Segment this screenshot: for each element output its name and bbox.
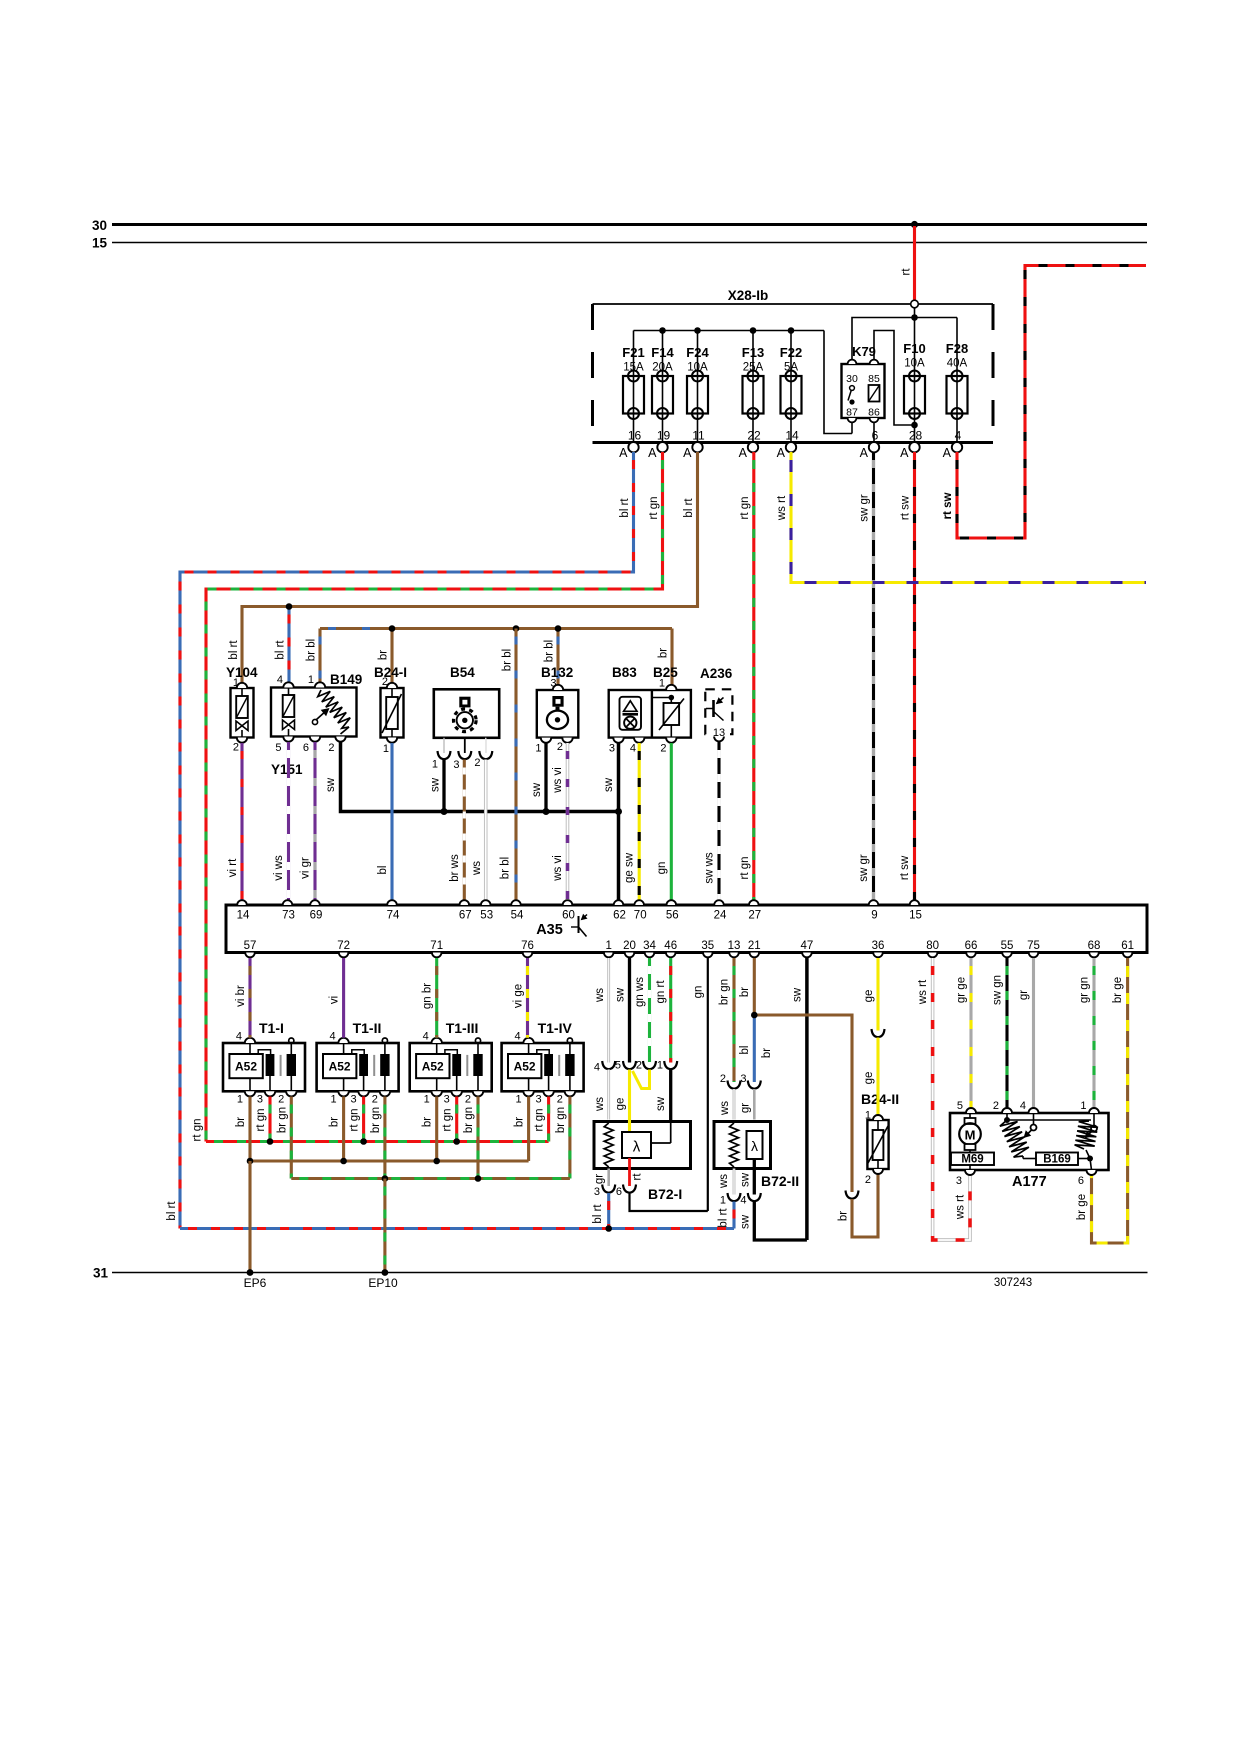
svg-text:30: 30 <box>846 373 858 385</box>
svg-text:5: 5 <box>275 742 281 754</box>
svg-text:3: 3 <box>594 1186 600 1198</box>
svg-text:vi rt: vi rt <box>227 858 239 877</box>
svg-text:4: 4 <box>740 1195 746 1207</box>
svg-text:3: 3 <box>956 1175 962 1187</box>
svg-text:B169: B169 <box>1043 1154 1071 1166</box>
svg-text:6: 6 <box>303 742 309 754</box>
svg-text:36: 36 <box>872 940 885 952</box>
svg-text:3: 3 <box>453 759 459 771</box>
svg-text:80: 80 <box>926 940 939 952</box>
svg-text:24: 24 <box>714 910 727 922</box>
svg-text:A: A <box>860 446 869 460</box>
svg-text:sw: sw <box>655 1096 667 1111</box>
svg-text:1: 1 <box>330 1094 336 1106</box>
svg-text:sw: sw <box>325 777 337 792</box>
svg-text:28: 28 <box>909 429 923 443</box>
svg-text:4: 4 <box>277 674 283 686</box>
svg-text:B25: B25 <box>653 665 678 680</box>
svg-text:EP10: EP10 <box>368 1276 398 1290</box>
svg-text:br bl: br bl <box>306 639 318 661</box>
svg-text:A35: A35 <box>536 922 563 938</box>
svg-text:47: 47 <box>801 940 814 952</box>
svg-text:ws rt: ws rt <box>776 495 788 521</box>
svg-text:1: 1 <box>657 1060 663 1072</box>
svg-text:4: 4 <box>423 1031 429 1043</box>
svg-text:rt gn: rt gn <box>255 1108 267 1131</box>
svg-text:73: 73 <box>282 910 295 922</box>
svg-text:br ws: br ws <box>449 854 461 882</box>
svg-text:55: 55 <box>1001 940 1014 952</box>
svg-text:gn ws: gn ws <box>634 977 646 1007</box>
svg-text:sw: sw <box>740 1172 752 1187</box>
svg-text:11: 11 <box>692 429 705 443</box>
svg-text:1: 1 <box>1080 1100 1086 1112</box>
svg-text:gr: gr <box>1018 990 1030 1000</box>
svg-text:F28: F28 <box>946 341 968 356</box>
svg-text:A236: A236 <box>700 666 733 681</box>
svg-text:1: 1 <box>535 743 541 755</box>
svg-text:ge sw: ge sw <box>624 852 636 883</box>
svg-text:F13: F13 <box>742 345 764 360</box>
svg-text:20: 20 <box>623 940 636 952</box>
svg-text:6: 6 <box>616 1186 622 1198</box>
svg-text:sw: sw <box>603 777 615 792</box>
svg-text:X28-Ib: X28-Ib <box>728 288 769 303</box>
svg-text:K79: K79 <box>852 344 876 359</box>
svg-text:bl rt: bl rt <box>166 1201 178 1221</box>
svg-text:15: 15 <box>92 236 108 251</box>
svg-text:λ: λ <box>633 1139 641 1156</box>
svg-text:sw gr: sw gr <box>859 494 871 522</box>
svg-text:4: 4 <box>1020 1100 1026 1112</box>
svg-text:ws: ws <box>718 1174 730 1189</box>
svg-text:1: 1 <box>659 678 665 690</box>
svg-text:2: 2 <box>636 1060 642 1072</box>
svg-text:sw: sw <box>615 987 627 1002</box>
svg-text:B24-I: B24-I <box>374 665 407 680</box>
svg-text:4: 4 <box>955 429 962 443</box>
svg-text:1: 1 <box>383 743 389 755</box>
svg-text:34: 34 <box>643 940 656 952</box>
svg-text:2: 2 <box>474 757 480 769</box>
svg-text:br bl: br bl <box>500 857 512 879</box>
svg-text:3: 3 <box>535 1094 541 1106</box>
svg-text:B72-I: B72-I <box>648 1186 682 1202</box>
svg-text:2: 2 <box>328 742 334 754</box>
svg-text:67: 67 <box>459 910 472 922</box>
svg-text:br gn: br gn <box>555 1107 567 1133</box>
svg-text:10A: 10A <box>904 358 925 370</box>
svg-text:6: 6 <box>872 429 879 443</box>
svg-text:13: 13 <box>728 940 741 952</box>
svg-text:1: 1 <box>424 1094 430 1106</box>
svg-text:40A: 40A <box>947 358 968 370</box>
svg-text:bl rt: bl rt <box>619 498 631 518</box>
svg-text:1: 1 <box>237 1094 243 1106</box>
svg-text:ws vi: ws vi <box>552 767 564 794</box>
svg-text:2: 2 <box>720 1073 726 1085</box>
svg-text:B54: B54 <box>450 665 475 680</box>
svg-text:rt gn: rt gn <box>349 1108 361 1131</box>
svg-text:br ge: br ge <box>1076 1194 1088 1220</box>
svg-text:rt: rt <box>632 1173 644 1181</box>
svg-text:br: br <box>838 1211 850 1221</box>
svg-text:rt gn: rt gn <box>648 496 660 519</box>
svg-text:bl rt: bl rt <box>592 1204 604 1224</box>
svg-text:F24: F24 <box>686 345 709 360</box>
svg-text:A: A <box>648 446 657 460</box>
svg-text:ge: ge <box>863 1072 875 1085</box>
svg-text:bl rt: bl rt <box>683 498 695 518</box>
svg-text:M69: M69 <box>961 1154 983 1166</box>
svg-text:vi ge: vi ge <box>513 984 525 1008</box>
svg-text:ge: ge <box>863 990 875 1003</box>
svg-text:ws rt: ws rt <box>917 979 929 1005</box>
svg-text:br: br <box>422 1117 434 1127</box>
svg-text:14: 14 <box>237 910 250 922</box>
svg-text:3: 3 <box>350 1094 356 1106</box>
svg-text:70: 70 <box>634 910 647 922</box>
svg-text:4: 4 <box>594 1062 600 1074</box>
svg-text:rt gn: rt gn <box>739 496 751 519</box>
svg-text:307243: 307243 <box>994 1277 1032 1289</box>
svg-text:3: 3 <box>257 1094 263 1106</box>
svg-text:85: 85 <box>868 373 880 385</box>
svg-text:rt gn: rt gn <box>739 856 751 879</box>
svg-text:λ: λ <box>751 1138 758 1154</box>
svg-text:gr: gr <box>594 1174 606 1184</box>
svg-text:F22: F22 <box>780 345 802 360</box>
svg-text:gr: gr <box>740 1103 752 1113</box>
svg-text:A: A <box>739 446 748 460</box>
svg-text:4: 4 <box>514 1031 520 1043</box>
svg-text:1: 1 <box>308 674 314 686</box>
svg-text:2: 2 <box>372 1094 378 1106</box>
svg-text:1: 1 <box>515 1094 521 1106</box>
svg-text:66: 66 <box>965 940 978 952</box>
svg-text:F21: F21 <box>622 345 644 360</box>
svg-text:rt sw: rt sw <box>942 493 954 520</box>
svg-text:B132: B132 <box>541 665 573 680</box>
svg-text:bl rt: bl rt <box>275 640 287 660</box>
svg-text:62: 62 <box>613 910 626 922</box>
svg-text:9: 9 <box>871 910 877 922</box>
svg-text:2: 2 <box>465 1094 471 1106</box>
svg-text:35: 35 <box>701 940 714 952</box>
svg-text:vi gr: vi gr <box>300 857 312 879</box>
svg-text:ws: ws <box>594 988 606 1003</box>
svg-text:A: A <box>777 446 786 460</box>
svg-text:A52: A52 <box>422 1060 444 1074</box>
svg-text:1: 1 <box>432 759 438 771</box>
svg-text:27: 27 <box>748 910 761 922</box>
svg-text:br: br <box>739 987 751 997</box>
svg-text:br ge: br ge <box>1112 977 1124 1003</box>
svg-text:31: 31 <box>93 1266 109 1281</box>
svg-text:2: 2 <box>865 1174 871 1186</box>
svg-text:sw: sw <box>740 1214 752 1229</box>
svg-text:vi: vi <box>329 996 341 1004</box>
svg-text:68: 68 <box>1088 940 1101 952</box>
svg-text:gn br: gn br <box>422 983 434 1009</box>
svg-text:2: 2 <box>557 1094 563 1106</box>
svg-text:gr ge: gr ge <box>956 977 968 1003</box>
svg-text:B83: B83 <box>612 665 637 680</box>
svg-text:F14: F14 <box>651 345 674 360</box>
svg-text:br bl: br bl <box>544 640 556 662</box>
svg-text:4: 4 <box>329 1031 335 1043</box>
svg-text:rt gn: rt gn <box>534 1108 546 1131</box>
svg-text:sw gn: sw gn <box>992 975 1004 1005</box>
svg-text:bl rt: bl rt <box>228 640 240 660</box>
svg-text:A52: A52 <box>235 1060 257 1074</box>
svg-text:76: 76 <box>521 940 534 952</box>
svg-text:gn: gn <box>656 862 668 875</box>
svg-text:vi ws: vi ws <box>273 855 285 881</box>
svg-text:EP6: EP6 <box>244 1276 267 1290</box>
svg-text:15: 15 <box>909 910 922 922</box>
svg-text:gn: gn <box>693 986 705 999</box>
svg-text:bl rt: bl rt <box>718 1208 730 1228</box>
svg-text:B24-II: B24-II <box>861 1091 899 1107</box>
svg-text:ws vi: ws vi <box>552 855 564 882</box>
svg-text:54: 54 <box>511 910 524 922</box>
svg-text:T1-I: T1-I <box>259 1020 284 1036</box>
svg-text:ws: ws <box>719 1101 731 1116</box>
svg-text:sw ws: sw ws <box>704 852 716 884</box>
svg-text:56: 56 <box>666 910 679 922</box>
svg-text:53: 53 <box>480 910 493 922</box>
svg-text:br gn: br gn <box>463 1107 475 1133</box>
svg-text:rt gn: rt gn <box>442 1108 454 1131</box>
svg-text:A: A <box>619 446 628 460</box>
svg-text:T1-II: T1-II <box>353 1020 382 1036</box>
svg-text:72: 72 <box>337 940 350 952</box>
svg-text:57: 57 <box>244 940 257 952</box>
svg-text:2: 2 <box>278 1094 284 1106</box>
svg-text:br: br <box>329 1117 341 1127</box>
svg-text:A52: A52 <box>514 1060 536 1074</box>
svg-text:87: 87 <box>846 407 858 419</box>
svg-text:69: 69 <box>310 910 323 922</box>
svg-text:rt: rt <box>901 268 913 276</box>
svg-text:A: A <box>943 446 952 460</box>
svg-text:vi br: vi br <box>235 985 247 1007</box>
svg-text:ws: ws <box>594 1097 606 1112</box>
svg-text:1: 1 <box>720 1195 726 1207</box>
svg-text:sw: sw <box>792 987 804 1002</box>
svg-text:4: 4 <box>630 743 636 755</box>
svg-text:T1-III: T1-III <box>446 1020 479 1036</box>
svg-text:rt sw: rt sw <box>900 495 912 520</box>
svg-text:bl: bl <box>377 866 389 875</box>
svg-text:br: br <box>761 1048 773 1058</box>
svg-text:22: 22 <box>747 429 761 443</box>
svg-text:M: M <box>965 1128 976 1143</box>
svg-text:1: 1 <box>605 940 611 952</box>
svg-text:21: 21 <box>748 940 761 952</box>
svg-text:ge: ge <box>615 1098 627 1111</box>
svg-text:br gn: br gn <box>719 979 731 1005</box>
svg-text:br: br <box>378 650 390 660</box>
svg-text:75: 75 <box>1027 940 1040 952</box>
svg-text:A177: A177 <box>1012 1174 1047 1190</box>
svg-text:sw: sw <box>531 782 543 797</box>
svg-text:A: A <box>683 446 692 460</box>
svg-text:5: 5 <box>615 1060 621 1072</box>
svg-text:14: 14 <box>785 429 799 443</box>
svg-text:5: 5 <box>957 1100 963 1112</box>
svg-text:Y104: Y104 <box>226 665 258 680</box>
svg-text:6: 6 <box>1078 1175 1084 1187</box>
svg-text:bl: bl <box>739 1046 751 1055</box>
svg-text:rt sw: rt sw <box>899 855 911 880</box>
svg-text:30: 30 <box>92 218 107 233</box>
svg-text:19: 19 <box>657 429 671 443</box>
svg-text:4: 4 <box>236 1031 242 1043</box>
svg-text:74: 74 <box>387 910 400 922</box>
svg-text:rt gn: rt gn <box>192 1118 204 1141</box>
svg-text:br: br <box>235 1117 247 1127</box>
svg-text:3: 3 <box>609 743 615 755</box>
svg-text:61: 61 <box>1121 940 1134 952</box>
svg-text:2: 2 <box>557 741 563 753</box>
svg-text:60: 60 <box>562 910 575 922</box>
svg-text:2: 2 <box>660 743 666 755</box>
svg-text:gr gn: gr gn <box>1079 977 1091 1003</box>
svg-text:16: 16 <box>628 429 642 443</box>
svg-text:ws: ws <box>471 861 483 876</box>
svg-text:71: 71 <box>430 940 443 952</box>
svg-text:sw: sw <box>430 777 442 792</box>
svg-text:2: 2 <box>993 1100 999 1112</box>
svg-text:46: 46 <box>664 940 677 952</box>
svg-text:2: 2 <box>233 742 239 754</box>
svg-text:B72-II: B72-II <box>761 1173 799 1189</box>
svg-text:3: 3 <box>740 1073 746 1085</box>
svg-text:gn rt: gn rt <box>655 980 667 1004</box>
svg-text:br: br <box>658 648 670 658</box>
svg-text:A52: A52 <box>329 1060 351 1074</box>
svg-text:sw gr: sw gr <box>858 854 870 882</box>
svg-text:br: br <box>514 1117 526 1127</box>
svg-text:br bl: br bl <box>502 649 514 671</box>
svg-text:3: 3 <box>444 1094 450 1106</box>
svg-text:br gn: br gn <box>370 1107 382 1133</box>
svg-text:86: 86 <box>868 407 880 419</box>
svg-text:B149: B149 <box>330 672 362 687</box>
svg-text:ws rt: ws rt <box>955 1194 967 1220</box>
svg-text:F10: F10 <box>903 341 925 356</box>
svg-text:A: A <box>900 446 909 460</box>
svg-text:T1-IV: T1-IV <box>538 1020 573 1036</box>
svg-text:br gn: br gn <box>276 1107 288 1133</box>
